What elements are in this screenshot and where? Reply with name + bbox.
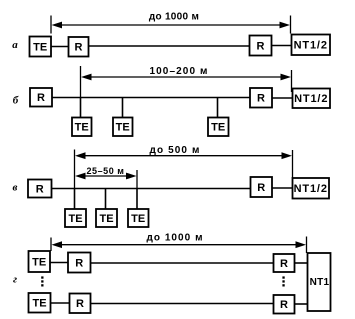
row g: box R top-left	[68, 253, 91, 273]
svg-text:TE: TE	[99, 213, 113, 225]
row v: dimension arrow "до 500 м"	[75, 145, 293, 189]
svg-text:R: R	[280, 299, 288, 311]
svg-text:до 1000 м: до 1000 м	[149, 11, 199, 22]
row b: drop wire TE1	[80, 98, 82, 119]
row g: wire R-NT1 bottom	[295, 303, 308, 305]
row b: box TE2	[113, 118, 133, 137]
svg-text:TE: TE	[116, 122, 130, 134]
svg-text:TE: TE	[75, 122, 89, 134]
row g: wire TE-R bottom	[51, 302, 70, 304]
row b: box R right	[250, 88, 272, 108]
svg-text:TE: TE	[68, 213, 82, 225]
row v: wire R-NT1/2	[272, 187, 293, 189]
svg-text:R: R	[257, 182, 265, 194]
row g: box NT1	[308, 253, 331, 311]
row b: box R left	[30, 88, 52, 107]
svg-text:R: R	[76, 298, 84, 310]
svg-text:б: б	[13, 95, 19, 107]
row v: box R left	[28, 180, 52, 198]
row a: box R left	[69, 37, 89, 57]
svg-text:R: R	[36, 183, 44, 195]
svg-text:NT1: NT1	[310, 277, 330, 288]
row a: wire TE-R	[51, 46, 69, 48]
row g: wire R-R top long	[91, 262, 274, 264]
row g: vertical dots left	[41, 276, 43, 286]
svg-text:25–50 м: 25–50 м	[86, 166, 124, 176]
svg-text:г: г	[13, 273, 17, 285]
row g: box TE bottom	[29, 293, 51, 313]
svg-text:а: а	[12, 39, 18, 51]
row v: bus wire	[52, 188, 251, 190]
svg-text:R: R	[75, 42, 83, 54]
svg-text:TE: TE	[32, 257, 46, 269]
svg-text:в: в	[13, 182, 18, 194]
row b: dimension arrow "100-200 м"	[81, 66, 292, 98]
svg-text:NT1/2: NT1/2	[294, 183, 328, 195]
row v: drop wire TE3	[136, 189, 138, 210]
svg-text:R: R	[37, 92, 45, 104]
row b: box TE1	[72, 118, 92, 137]
svg-text:до 500 м: до 500 м	[150, 145, 201, 156]
svg-text:R: R	[280, 258, 288, 270]
row v: box TE3	[128, 209, 149, 227]
row v: box NT1/2	[293, 178, 330, 199]
row b: wire R-NT1/2	[272, 97, 293, 99]
svg-text:NT1/2: NT1/2	[294, 93, 328, 105]
row g: wire R-NT1 top	[295, 262, 308, 264]
row b: box TE3	[208, 118, 229, 137]
svg-text:TE: TE	[33, 41, 47, 53]
row v: box TE2	[96, 209, 117, 227]
row g: box TE top	[29, 251, 51, 272]
row a: wire R-NT1/2	[272, 45, 292, 47]
row a: box TE	[30, 37, 52, 57]
row b: bus wire	[52, 97, 250, 99]
row v: drop wire TE2	[105, 189, 107, 210]
row g: wire TE-R top	[50, 262, 68, 264]
row b: box NT1/2	[293, 89, 331, 109]
row a: box NT1/2	[292, 35, 331, 56]
row g: vertical dots right	[282, 276, 284, 286]
row v: drop wire TE1	[74, 189, 76, 210]
svg-text:R: R	[257, 40, 265, 52]
row v: box TE1	[65, 209, 86, 227]
row b: drop wire TE2	[122, 98, 124, 119]
svg-text:TE: TE	[211, 122, 225, 134]
row v: dimension arrow "25-50 м"	[75, 166, 137, 189]
row g: box R bottom-left	[70, 294, 91, 314]
svg-text:R: R	[75, 257, 83, 269]
row a: wire R-R long	[89, 45, 250, 47]
svg-text:100–200 м: 100–200 м	[149, 66, 208, 77]
row g: wire R-R bottom long	[91, 303, 274, 305]
row g: dimension arrow "до 1000 м"	[51, 232, 307, 253]
row a: box R right	[250, 36, 272, 56]
svg-text:TE: TE	[32, 298, 46, 310]
svg-text:NT1/2: NT1/2	[294, 39, 328, 51]
row g: box R top-right	[274, 254, 295, 272]
row g: box R bottom-right	[274, 295, 295, 314]
row v: box R right	[251, 177, 273, 197]
row a: dimension arrow "до 1000 м"	[51, 11, 291, 33]
svg-text:до 1000 м: до 1000 м	[146, 232, 203, 243]
row b: drop wire TE3	[217, 98, 219, 119]
svg-text:TE: TE	[131, 213, 145, 225]
svg-text:R: R	[257, 93, 265, 105]
